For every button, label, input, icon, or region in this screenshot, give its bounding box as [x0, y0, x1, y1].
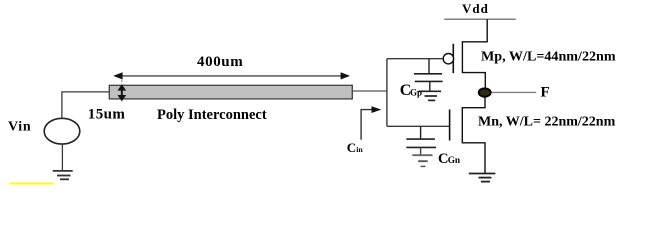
node F dot	[479, 88, 491, 96]
label CGp	[400, 82, 422, 99]
capacitor CGn	[406, 126, 436, 147]
voltage source Vin label	[8, 120, 31, 135]
svg-text:C: C	[347, 140, 356, 155]
dimension arrow 15um (bar thickness)	[117, 80, 126, 102]
label 15um	[88, 106, 126, 122]
ground under Vin	[53, 171, 73, 179]
svg-text:400um: 400um	[197, 54, 243, 70]
label Poly Interconnect	[157, 107, 267, 123]
capacitor Cin pointer arrow	[361, 106, 381, 140]
ground under CGn	[412, 147, 432, 166]
label Mp	[481, 48, 616, 64]
label Cin	[347, 140, 364, 155]
wire from node F to label	[492, 91, 537, 93]
capacitor CGp	[414, 59, 443, 82]
label CGn	[438, 151, 461, 167]
svg-text:Gp: Gp	[410, 87, 422, 97]
ground under Mn	[469, 174, 496, 182]
wire from Vin top to poly interconnect	[62, 92, 110, 119]
svg-text:Vdd: Vdd	[462, 1, 489, 16]
node input vertical wire	[386, 59, 388, 127]
dimension arrow 400um	[113, 72, 350, 79]
svg-text:in: in	[356, 145, 363, 154]
wire from Vin bottom to ground	[61, 144, 63, 171]
wire bottom branch to NMOS gate	[387, 125, 450, 127]
poly interconnect bar	[109, 85, 352, 99]
wire from poly bar to inverter input node	[352, 90, 387, 92]
svg-text:Mp, W/L=44nm/22nm: Mp, W/L=44nm/22nm	[481, 48, 616, 64]
yellow highlight mark bottom-left	[9, 183, 54, 185]
svg-text:15um: 15um	[88, 106, 126, 122]
svg-text:F: F	[541, 85, 550, 101]
svg-text:Vin: Vin	[8, 120, 31, 135]
Vdd rail	[444, 18, 516, 20]
label 400um	[197, 54, 243, 70]
label Mn	[478, 114, 616, 129]
ground under CGp	[419, 81, 442, 100]
transistor Mp (PMOS)	[443, 19, 487, 88]
label F	[541, 85, 550, 101]
svg-text:Gn: Gn	[448, 156, 461, 166]
transistor Mn (NMOS)	[450, 97, 485, 173]
voltage source Vin (circle)	[44, 118, 80, 144]
svg-text:Mn, W/L= 22nm/22nm: Mn, W/L= 22nm/22nm	[478, 114, 616, 129]
svg-text:Poly Interconnect: Poly Interconnect	[157, 107, 267, 123]
Vdd label	[462, 1, 489, 16]
wire top branch to PMOS gate	[387, 58, 443, 60]
